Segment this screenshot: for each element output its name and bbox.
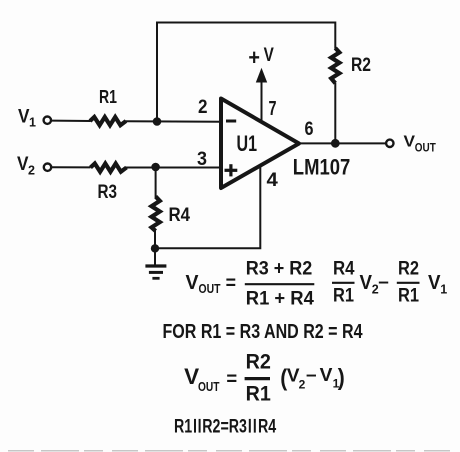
svg-text:OUT: OUT (199, 282, 221, 296)
svg-text:V: V (360, 272, 373, 294)
svg-text:V: V (186, 271, 199, 294)
svg-text:–: – (378, 272, 389, 293)
svg-text:R2: R2 (246, 350, 271, 373)
wire V2 input lead (52, 166, 91, 168)
node junction R1/feedback (153, 117, 162, 126)
op-amp U1 (221, 99, 299, 189)
svg-text:V: V (404, 133, 416, 150)
wire V1 input lead (52, 120, 91, 122)
svg-text:R2: R2 (398, 258, 419, 280)
svg-text:OUT: OUT (415, 141, 437, 155)
formula 3: Vout = R2/R1 (V2-V1) (184, 350, 345, 405)
label V2 (17, 154, 35, 178)
svg-text:LM107: LM107 (293, 155, 351, 180)
svg-text:–: – (306, 365, 317, 386)
resistor R2 (331, 48, 339, 83)
wire R3 to pin 3 (126, 167, 221, 169)
label VOUT (404, 133, 437, 154)
node junction R3/R4 (151, 163, 160, 172)
wire R2 bottom lead (334, 83, 336, 143)
wire +V supply vertical (261, 82, 263, 122)
label V1 (18, 107, 36, 130)
svg-text:R4: R4 (333, 258, 355, 280)
wire R2 top lead (334, 22, 336, 49)
wire R4 bottom lead to ground (154, 231, 156, 265)
svg-text:=: = (226, 369, 237, 390)
scan edge artifact bottom (8, 450, 455, 452)
svg-text:): ) (338, 364, 345, 390)
wire R4 top lead (155, 167, 157, 198)
svg-text:4: 4 (267, 169, 278, 191)
wire output (297, 142, 386, 144)
plus symbol (non-inverting input) (225, 164, 238, 176)
resistor R4 (152, 197, 160, 232)
node junction output/R2 (331, 139, 340, 148)
svg-text:U1: U1 (237, 131, 258, 156)
svg-text:R1: R1 (174, 417, 193, 438)
svg-text:3: 3 (197, 149, 207, 170)
svg-text:R2: R2 (351, 54, 371, 76)
svg-text:R1: R1 (246, 382, 271, 405)
svg-text:R4: R4 (169, 204, 191, 226)
arrow +V (256, 68, 267, 83)
svg-text:+: + (248, 45, 260, 70)
formula 4: R1||R2=R3||R4 (174, 417, 277, 438)
terminal VOUT (386, 140, 393, 147)
svg-text:V: V (428, 272, 441, 294)
svg-text:V: V (320, 365, 333, 385)
wire pin 4 to ground node (155, 166, 260, 249)
svg-text:7: 7 (269, 98, 277, 120)
node junction R4/ground/pin4 (151, 244, 159, 252)
svg-text:1: 1 (29, 116, 36, 130)
svg-text:6: 6 (305, 119, 314, 140)
svg-text:R1: R1 (99, 86, 117, 107)
minus symbol (inverting input) (226, 120, 236, 123)
terminal V1 (44, 117, 51, 124)
wire R1 to pin 2 (126, 120, 222, 123)
svg-text:OUT: OUT (198, 379, 220, 394)
ground (145, 266, 166, 278)
svg-text:R1 + R4: R1 + R4 (246, 288, 314, 310)
svg-text:R2=R3: R2=R3 (202, 417, 247, 438)
formula 1: Vout = (R3+R2)/(R1+R4) (R4/R1)V2 - (R2/R1)V1 (186, 258, 448, 310)
svg-text:R1: R1 (333, 285, 354, 307)
svg-text:1: 1 (440, 283, 447, 297)
terminal V2 (44, 164, 51, 171)
svg-text:R3: R3 (98, 181, 118, 203)
svg-text:FOR R1 = R3 AND R2 = R4: FOR R1 = R3 AND R2 = R4 (163, 321, 364, 343)
svg-text:R3 + R2: R3 + R2 (246, 258, 313, 280)
svg-text:2: 2 (28, 164, 35, 178)
wire feedback vertical (157, 23, 335, 122)
svg-text:=: = (226, 273, 236, 294)
resistor R1 (90, 117, 126, 125)
resistor R3 (91, 164, 127, 172)
svg-text:2: 2 (299, 377, 306, 391)
svg-text:V: V (264, 44, 274, 66)
svg-text:R1: R1 (398, 285, 419, 307)
svg-text:2: 2 (198, 97, 208, 118)
svg-text:R4: R4 (258, 417, 277, 438)
